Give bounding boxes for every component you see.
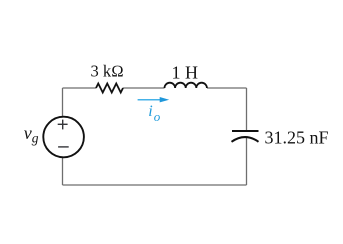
svg-text:g: g xyxy=(32,130,39,145)
svg-text:v: v xyxy=(24,123,32,143)
svg-text:31.25 nF: 31.25 nF xyxy=(265,127,329,147)
svg-text:1 H: 1 H xyxy=(172,62,199,82)
svg-text:3 kΩ: 3 kΩ xyxy=(91,62,124,81)
svg-text:o: o xyxy=(154,109,161,124)
svg-text:i: i xyxy=(148,103,152,120)
